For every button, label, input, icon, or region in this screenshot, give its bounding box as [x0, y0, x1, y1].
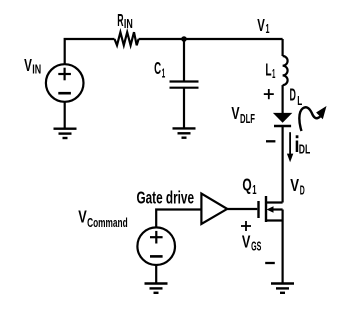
plus sign (VDLF)	[264, 89, 274, 99]
svg-text:L: L	[297, 93, 302, 108]
svg-text:1: 1	[252, 182, 256, 197]
minus sign (VDLF)	[266, 140, 275, 142]
ground (VCommand)	[145, 284, 168, 293]
drain stub	[266, 201, 283, 203]
MOSFET Q1	[259, 196, 283, 222]
label VIN	[24, 55, 41, 77]
LED diode DL triangle	[273, 113, 292, 123]
node junction dot at C1 tap	[181, 36, 187, 42]
wire: node to C1 top plate	[183, 39, 185, 81]
MOSFET body arrow head	[267, 206, 274, 212]
wire: VIN bottom to ground	[64, 102, 66, 129]
svg-text:L: L	[265, 60, 271, 80]
wire: rail from resistor to V1 corner	[139, 38, 283, 40]
wire: V1 corner down to inductor	[282, 39, 284, 56]
label VCommand	[78, 207, 127, 231]
wire: VCommand bottom to ground	[155, 265, 157, 284]
inductor L1	[283, 56, 288, 85]
svg-text:V: V	[257, 15, 265, 35]
plus sign (VGS)	[241, 221, 251, 231]
VCommand minus sign	[150, 255, 163, 258]
svg-text:Q: Q	[242, 174, 251, 194]
svg-text:1: 1	[162, 65, 166, 80]
label C1	[154, 58, 165, 80]
node VD label	[290, 175, 305, 198]
VIN minus sign	[58, 92, 71, 95]
VCommand plus sign	[150, 231, 163, 244]
svg-text:1: 1	[272, 66, 275, 81]
svg-text:DLF: DLF	[240, 111, 255, 126]
label L1	[265, 60, 275, 82]
label RIN	[117, 10, 133, 31]
svg-text:D: D	[290, 85, 296, 105]
channel bar	[265, 196, 267, 222]
svg-text:Command: Command	[87, 215, 128, 230]
gate drive buffer triangle	[201, 194, 227, 224]
body stub	[273, 208, 283, 210]
voltage source VCommand circle	[137, 227, 175, 265]
svg-text:DL: DL	[299, 142, 311, 157]
node V1 label	[257, 15, 269, 36]
label iDL	[296, 135, 311, 156]
svg-text:GS: GS	[251, 239, 261, 254]
svg-text:Gate drive: Gate drive	[137, 188, 195, 208]
label Q1	[242, 174, 256, 197]
svg-text:D: D	[300, 183, 305, 198]
ground (C1)	[173, 128, 196, 137]
wire: C1 bottom plate to ground	[183, 88, 185, 129]
ground (VIN)	[54, 129, 77, 138]
wire: MOSFET source/body down to ground	[282, 210, 284, 284]
ground (Q1 source)	[271, 284, 294, 293]
wire: VCommand to buffer input	[156, 210, 201, 228]
svg-text:V: V	[231, 103, 239, 123]
label VGS	[242, 232, 262, 254]
svg-text:R: R	[117, 10, 123, 30]
svg-text:C: C	[154, 58, 161, 78]
svg-text:1: 1	[266, 21, 270, 36]
wire: LED cathode down to MOSFET drain	[282, 126, 284, 202]
svg-text:V: V	[242, 232, 251, 252]
capacitor C1	[170, 82, 199, 88]
LED cathode bar	[274, 125, 291, 127]
label DL (diode name)	[290, 85, 303, 108]
wire: VIN top corner to resistor	[65, 39, 115, 64]
minus sign (VGS)	[265, 262, 275, 264]
gate bar	[257, 201, 259, 218]
wire: buffer output to gate	[227, 208, 257, 210]
label VDLF	[231, 103, 255, 126]
source stub	[266, 219, 283, 221]
svg-text:V: V	[290, 175, 299, 195]
VIN plus sign	[58, 68, 71, 81]
current arrow iDL	[287, 132, 293, 162]
wire: inductor to LED anode	[282, 85, 284, 113]
light emission squiggle arrow	[299, 106, 326, 131]
resistor RIN	[115, 32, 139, 45]
svg-text:V: V	[24, 55, 32, 75]
voltage source VIN circle	[46, 64, 84, 102]
svg-text:IN: IN	[32, 62, 41, 77]
svg-text:V: V	[78, 207, 87, 227]
svg-text:IN: IN	[124, 16, 133, 31]
